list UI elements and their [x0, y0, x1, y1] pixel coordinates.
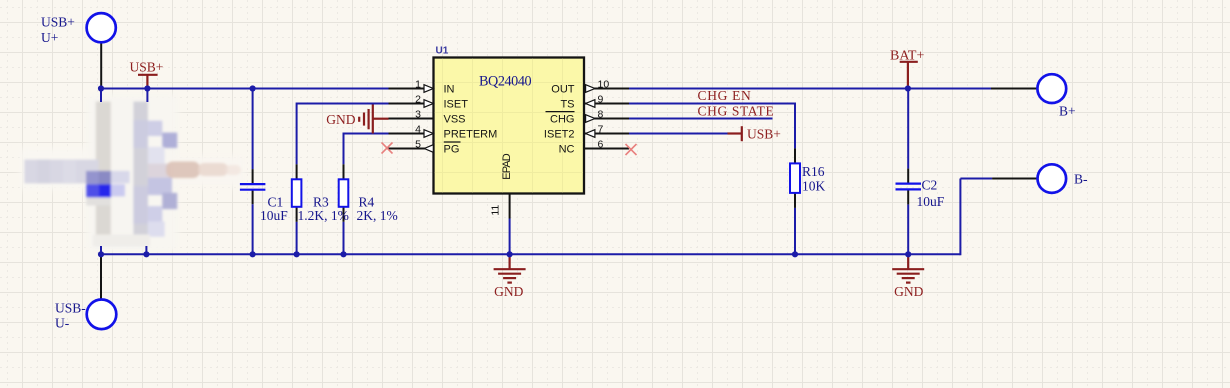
svg-text:EPAD: EPAD	[501, 153, 513, 180]
svg-text:R16: R16	[802, 164, 825, 179]
svg-text:U+: U+	[41, 30, 58, 45]
svg-text:R4: R4	[359, 194, 375, 209]
svg-text:BQ24040: BQ24040	[479, 74, 532, 90]
svg-text:ISET2: ISET2	[544, 128, 575, 140]
svg-text:4: 4	[415, 124, 421, 136]
svg-text:GND: GND	[494, 284, 523, 299]
svg-text:3: 3	[415, 109, 421, 121]
svg-text:C2: C2	[922, 177, 938, 192]
svg-text:NC: NC	[559, 143, 575, 155]
svg-text:ISET: ISET	[444, 98, 469, 110]
svg-text:USB+: USB+	[41, 15, 75, 30]
svg-text:5: 5	[415, 139, 421, 151]
svg-text:U1: U1	[436, 45, 449, 56]
svg-text:PG: PG	[444, 143, 460, 155]
svg-text:BAT+: BAT+	[890, 48, 924, 63]
svg-text:CHG: CHG	[550, 113, 574, 125]
svg-text:CHG EN: CHG EN	[698, 88, 752, 103]
svg-text:GND: GND	[894, 284, 923, 299]
svg-text:USB+: USB+	[130, 59, 164, 74]
svg-text:USB+: USB+	[747, 126, 781, 141]
svg-text:2: 2	[415, 94, 421, 106]
svg-text:PRETERM: PRETERM	[444, 128, 498, 140]
svg-text:U-: U-	[55, 316, 70, 331]
svg-text:IN: IN	[444, 83, 455, 95]
svg-text:1: 1	[415, 79, 421, 91]
svg-text:1.2K, 1%: 1.2K, 1%	[298, 208, 349, 223]
svg-text:9: 9	[598, 94, 604, 106]
svg-text:6: 6	[598, 139, 604, 151]
svg-text:7: 7	[598, 124, 604, 136]
svg-text:CHG STATE: CHG STATE	[698, 104, 774, 119]
svg-text:10K: 10K	[802, 179, 826, 194]
svg-text:B-: B-	[1074, 171, 1088, 186]
svg-text:10uF: 10uF	[260, 208, 288, 223]
svg-text:USB-: USB-	[55, 301, 86, 316]
svg-text:10uF: 10uF	[917, 194, 945, 209]
svg-text:OUT: OUT	[551, 83, 575, 95]
svg-text:8: 8	[598, 109, 604, 121]
svg-text:2K, 1%: 2K, 1%	[357, 208, 398, 223]
svg-text:B+: B+	[1059, 103, 1076, 118]
svg-text:TS: TS	[560, 98, 574, 110]
svg-text:R3: R3	[313, 194, 329, 209]
svg-text:GND: GND	[326, 112, 355, 127]
svg-text:11: 11	[489, 205, 501, 216]
svg-text:VSS: VSS	[444, 113, 466, 125]
svg-text:10: 10	[598, 79, 610, 91]
